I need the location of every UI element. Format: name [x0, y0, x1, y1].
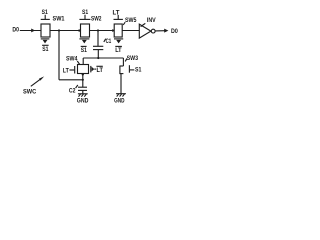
node C junction dot	[97, 57, 99, 59]
SW5 label pointer	[123, 22, 125, 25]
svg-text:LT: LT	[115, 47, 121, 54]
svg-text:D0: D0	[12, 27, 19, 34]
LT-bar overline (SW4 right)	[96, 65, 102, 67]
wire INV to output	[155, 30, 165, 32]
svg-text:SW1: SW1	[53, 15, 65, 22]
op-amp INV triangle	[139, 24, 151, 38]
LT-bar control wire (SW4 right)	[94, 68, 96, 70]
S1-bar overline (SW2 bottom)	[81, 45, 87, 47]
junction dot C2 node	[82, 79, 84, 81]
svg-text:LT: LT	[63, 67, 69, 74]
wire SW2 to SW5	[90, 30, 115, 32]
SW2 gate bar bottom	[79, 38, 89, 40]
SW2 inverted control triangle	[82, 40, 87, 44]
arrowhead into SW5	[112, 29, 115, 32]
svg-text:INV: INV	[147, 17, 156, 24]
ground symbol (left)	[78, 93, 88, 95]
capacitor C2 top plate	[78, 86, 87, 88]
SW5 gate bar bottom	[114, 38, 123, 40]
SW3 gate bar	[128, 65, 130, 73]
svg-text:GND: GND	[77, 98, 89, 105]
svg-text:LT: LT	[97, 67, 103, 74]
SW2 gate bar top	[79, 18, 90, 20]
SW3 channel	[119, 66, 121, 75]
C2 label pointer	[76, 85, 78, 88]
wire C1 to node C	[97, 50, 99, 58]
SW3 gate wire	[130, 69, 135, 71]
svg-text:C1: C1	[106, 38, 112, 45]
node C horizontal wire	[83, 57, 123, 59]
SW5 gate stub top	[117, 15, 119, 19]
S1-bar overline (SW1 bottom)	[42, 44, 49, 46]
arrowhead into SW2	[79, 29, 82, 32]
svg-text:S1: S1	[42, 46, 49, 53]
svg-text:SW2: SW2	[91, 15, 102, 22]
SW3 drain jog	[120, 65, 124, 67]
transistor SW3 drain wire	[122, 58, 124, 66]
svg-text:SW4: SW4	[66, 55, 78, 62]
SWC block label arrow	[31, 78, 42, 86]
SW3 source jog	[120, 73, 124, 75]
svg-text:S1: S1	[42, 9, 49, 16]
SW4 bottom terminal dot	[82, 73, 84, 75]
SW5 gate bar top	[114, 18, 123, 20]
LT control wire (SW4 left)	[69, 69, 74, 71]
svg-text:D0: D0	[171, 28, 178, 35]
svg-text:SWC: SWC	[23, 89, 37, 96]
capacitor C2 bottom plate	[78, 89, 87, 91]
junction node B dot	[97, 29, 99, 31]
wire SW1 to SW2	[50, 30, 81, 32]
SW2 gate stub top	[84, 15, 86, 19]
ground symbol (right)	[116, 93, 126, 95]
SW1 gate bar top	[41, 18, 50, 20]
wire node C down into SW4	[82, 58, 84, 65]
junction node A dot	[58, 29, 60, 31]
SW4 label pointer	[77, 61, 79, 64]
LT-bar overline (SW5 bottom)	[115, 45, 122, 47]
wire SW5 to inverter	[122, 30, 139, 32]
SW4 gate bar left	[74, 66, 76, 74]
SW5 inverted control triangle	[116, 40, 121, 44]
svg-text:S1: S1	[81, 47, 88, 54]
capacitor C1 top plate	[93, 45, 103, 47]
wire C2 to ground	[82, 90, 84, 93]
wire SW3 source to ground	[120, 74, 122, 94]
wire input D0 to SW1	[20, 30, 41, 32]
switch SW4 box	[78, 65, 89, 74]
svg-text:LT: LT	[113, 9, 120, 16]
wire node B down to C1	[97, 31, 99, 47]
SW1 inverted control triangle	[43, 40, 48, 44]
svg-text:S1: S1	[82, 9, 89, 16]
SW1 gate bar bottom	[41, 38, 50, 40]
SW3 label pointer	[125, 58, 127, 61]
wire SW4 bottom down to C2	[82, 74, 84, 88]
input signal arrowhead	[31, 29, 35, 33]
capacitor C1 bottom plate	[93, 49, 103, 51]
svg-text:SW5: SW5	[125, 17, 137, 24]
output arrowhead	[164, 29, 168, 33]
svg-text:GND: GND	[114, 98, 125, 105]
switch SW1 box	[41, 24, 50, 37]
wire node A down	[58, 31, 60, 80]
SW4 inverted control triangle right	[92, 67, 95, 72]
switch SW2 box	[81, 24, 90, 37]
INV output bubble	[151, 29, 155, 33]
wire node A across to C2 node	[59, 79, 83, 81]
svg-text:SW3: SW3	[127, 55, 139, 62]
INV label pointer	[141, 23, 146, 26]
C1 label pointer	[104, 39, 106, 42]
svg-text:C2: C2	[69, 88, 76, 95]
switch SW5 box	[114, 24, 122, 37]
SW4 gate bar right	[90, 66, 92, 73]
SW1 gate stub top	[44, 15, 46, 19]
svg-text:S1: S1	[135, 67, 142, 74]
